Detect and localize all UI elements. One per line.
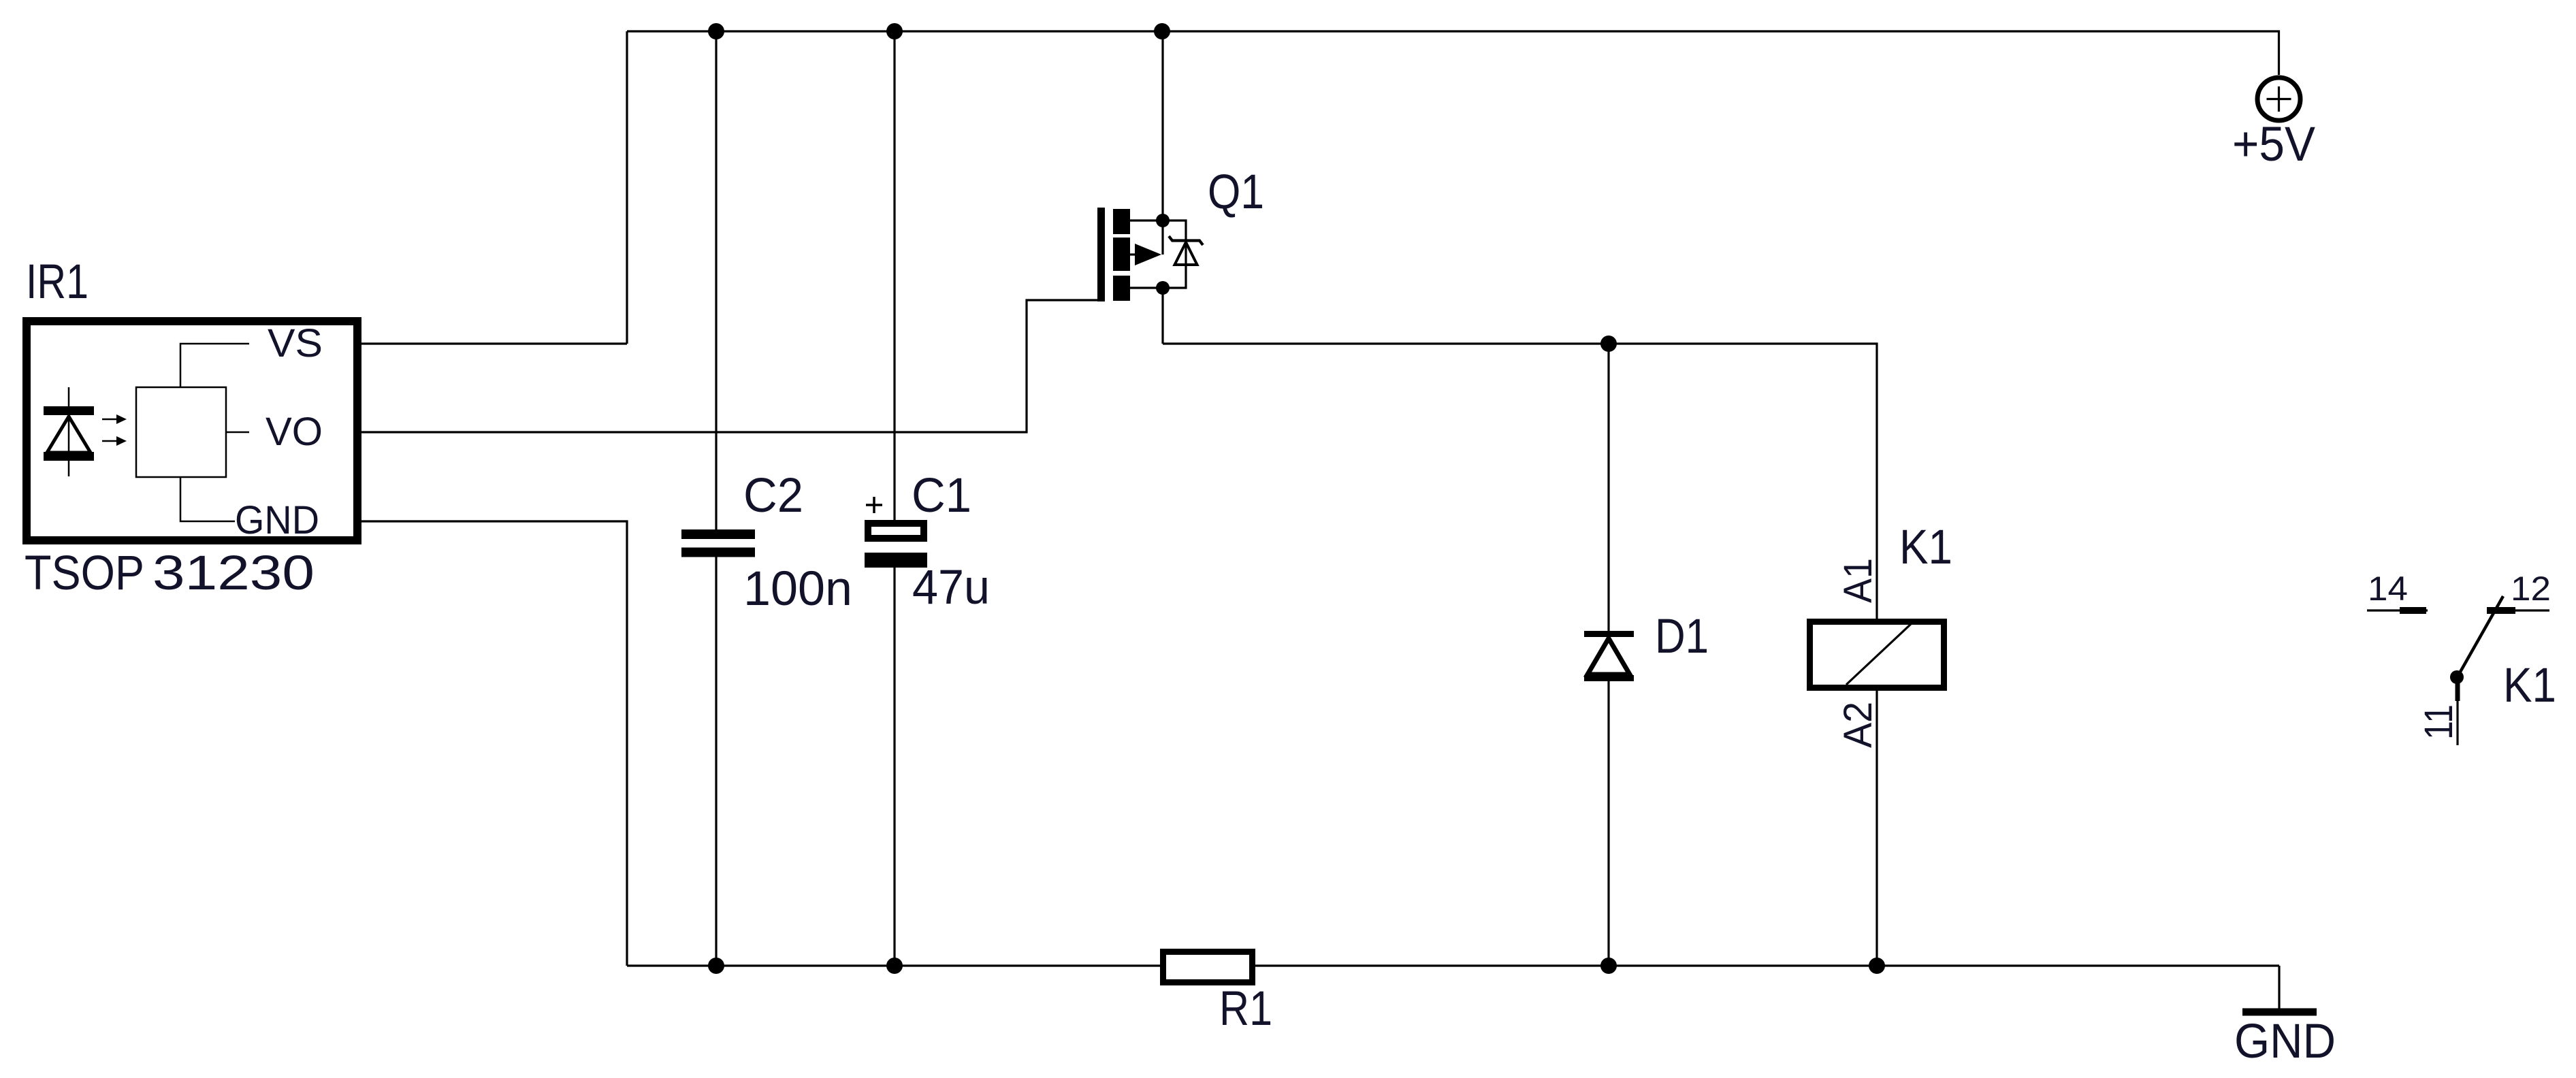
svg-text:Q1: Q1 — [1208, 165, 1264, 219]
svg-text:C2: C2 — [743, 469, 803, 523]
svg-text:VS: VS — [268, 321, 323, 365]
svg-text:A1: A1 — [1836, 558, 1880, 603]
svg-text:K1: K1 — [1899, 521, 1952, 574]
svg-text:R1: R1 — [1219, 982, 1272, 1036]
svg-text:D1: D1 — [1655, 610, 1709, 664]
svg-text:100n: 100n — [743, 562, 852, 616]
svg-text:VO: VO — [265, 410, 323, 454]
svg-text:14: 14 — [2368, 570, 2408, 608]
svg-text:GND: GND — [2234, 1015, 2336, 1068]
svg-text:12: 12 — [2511, 570, 2551, 608]
svg-text:GND: GND — [235, 498, 319, 542]
svg-text:K1: K1 — [2503, 659, 2556, 713]
svg-text:+5V: +5V — [2232, 118, 2316, 171]
svg-text:IR1: IR1 — [26, 255, 88, 309]
svg-text:47u: 47u — [912, 561, 990, 615]
svg-text:11: 11 — [2417, 704, 2461, 740]
svg-text:C1: C1 — [912, 469, 971, 523]
svg-text:TSOP: TSOP — [25, 546, 144, 600]
svg-text:A2: A2 — [1836, 702, 1880, 748]
svg-text:31230: 31230 — [152, 546, 315, 600]
